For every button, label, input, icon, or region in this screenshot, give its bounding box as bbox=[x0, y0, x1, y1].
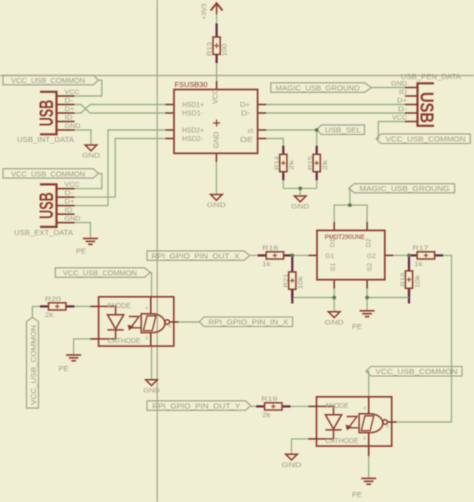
svg-text:USB_PEN_DATA: USB_PEN_DATA bbox=[401, 72, 461, 81]
svg-text:R17: R17 bbox=[413, 245, 429, 252]
svg-text:10k: 10k bbox=[298, 275, 305, 289]
svg-text:100: 100 bbox=[221, 43, 228, 56]
svg-text:D+: D+ bbox=[65, 199, 75, 206]
svg-text:VCC_USB_COMMON: VCC_USB_COMMON bbox=[11, 78, 85, 85]
svg-text:D+: D+ bbox=[65, 106, 75, 113]
svg-text:GND: GND bbox=[82, 153, 100, 160]
svg-text:2k: 2k bbox=[262, 412, 271, 419]
svg-text:GND: GND bbox=[391, 81, 407, 88]
svg-text:ID: ID bbox=[65, 207, 73, 214]
svg-text:MAGIC_USB_GROUND: MAGIC_USB_GROUND bbox=[276, 86, 360, 93]
svg-text:USB: USB bbox=[37, 100, 58, 127]
svg-text:VCC: VCC bbox=[65, 182, 80, 189]
svg-text:S1: S1 bbox=[330, 262, 337, 271]
svg-text:PE: PE bbox=[59, 366, 69, 373]
svg-text:3: 3 bbox=[363, 436, 366, 441]
svg-text:VCC: VCC bbox=[65, 89, 80, 96]
svg-text:2k: 2k bbox=[45, 312, 54, 319]
svg-text:R16: R16 bbox=[262, 245, 278, 252]
svg-text:S2: S2 bbox=[367, 262, 374, 271]
svg-text:VCC_USB_COMMON: VCC_USB_COMMON bbox=[63, 271, 137, 278]
svg-text:GND: GND bbox=[325, 319, 344, 326]
svg-text:USB: USB bbox=[37, 192, 58, 219]
svg-text:USB_EXT_DATA: USB_EXT_DATA bbox=[14, 228, 73, 237]
svg-text:HSD1-: HSD1- bbox=[182, 111, 204, 118]
svg-text:GND: GND bbox=[65, 123, 81, 130]
svg-text:PE: PE bbox=[352, 324, 362, 331]
svg-text:1k: 1k bbox=[262, 261, 271, 268]
svg-text:G1: G1 bbox=[325, 253, 334, 260]
svg-text:GND: GND bbox=[65, 216, 81, 223]
svg-text:D1: D1 bbox=[330, 238, 337, 247]
svg-text:OE: OE bbox=[240, 137, 253, 144]
svg-text:RPI_GPIO_PIN_IN_X: RPI_GPIO_PIN_IN_X bbox=[208, 320, 288, 327]
svg-text:MAGIC_USB_GROUNG: MAGIC_USB_GROUNG bbox=[359, 186, 449, 193]
svg-text:ID: ID bbox=[65, 115, 73, 122]
svg-text:R20: R20 bbox=[45, 296, 61, 303]
svg-text:2k: 2k bbox=[322, 159, 329, 170]
svg-text:2k: 2k bbox=[289, 159, 296, 170]
svg-text:G2: G2 bbox=[367, 253, 376, 260]
svg-text:10k: 10k bbox=[414, 274, 421, 288]
svg-text:PE: PE bbox=[76, 249, 86, 256]
svg-text:D-: D- bbox=[241, 111, 251, 118]
svg-text:D+: D+ bbox=[397, 98, 407, 105]
svg-text:GND: GND bbox=[214, 132, 221, 149]
svg-text:3: 3 bbox=[145, 336, 148, 341]
svg-text:USB: USB bbox=[417, 92, 438, 123]
svg-text:USB_SEL: USB_SEL bbox=[325, 128, 361, 135]
svg-text:FSUSB30: FSUSB30 bbox=[175, 80, 208, 89]
svg-text:GND: GND bbox=[291, 204, 309, 211]
svg-text:VCC_USB_COMMON: VCC_USB_COMMON bbox=[11, 171, 85, 178]
svg-text:ID: ID bbox=[399, 89, 407, 96]
svg-text:ANODE: ANODE bbox=[107, 303, 131, 310]
svg-text:R19: R19 bbox=[261, 396, 277, 403]
svg-text:VCC_USB_COMMON: VCC_USB_COMMON bbox=[386, 137, 466, 144]
svg-text:HSD1+: HSD1+ bbox=[182, 102, 204, 109]
svg-text:ANODE: ANODE bbox=[325, 403, 349, 410]
svg-text:4: 4 bbox=[363, 405, 366, 410]
svg-text:VCC: VCC bbox=[392, 115, 407, 122]
svg-text:RPI_GPIO_PIN_OUT_X: RPI_GPIO_PIN_OUT_X bbox=[152, 254, 240, 261]
svg-text:VCC_USB_COMMON: VCC_USB_COMMON bbox=[376, 369, 458, 376]
svg-text:GND: GND bbox=[207, 202, 226, 209]
svg-text:+3V3: +3V3 bbox=[201, 3, 208, 19]
svg-text:HSD2-: HSD2- bbox=[182, 136, 204, 143]
svg-text:PE: PE bbox=[352, 492, 362, 499]
svg-text:USB_INT_DATA: USB_INT_DATA bbox=[17, 135, 74, 144]
svg-text:4: 4 bbox=[145, 305, 148, 310]
svg-text:R14: R14 bbox=[274, 156, 281, 170]
svg-text:D+: D+ bbox=[240, 102, 250, 109]
svg-text:HSD2+: HSD2+ bbox=[182, 128, 204, 135]
svg-text:RPI_GPIO_PIN_OUT_Y: RPI_GPIO_PIN_OUT_Y bbox=[152, 404, 240, 411]
svg-text:D-: D- bbox=[65, 190, 74, 197]
svg-text:R21: R21 bbox=[283, 273, 290, 287]
svg-text:GND: GND bbox=[282, 462, 302, 469]
svg-text:D-: D- bbox=[65, 98, 74, 105]
svg-text:VCC: VCC bbox=[213, 89, 220, 104]
svg-text:1k: 1k bbox=[414, 261, 423, 268]
svg-text:D2: D2 bbox=[366, 238, 373, 247]
svg-text:GND: GND bbox=[143, 387, 160, 394]
svg-text:S: S bbox=[248, 128, 255, 133]
svg-text:D-: D- bbox=[398, 106, 407, 113]
svg-text:5: 5 bbox=[169, 323, 172, 328]
svg-text:R18: R18 bbox=[400, 272, 407, 286]
svg-text:CATHODE: CATHODE bbox=[108, 338, 141, 345]
svg-text:VCC_USB_COMMON: VCC_USB_COMMON bbox=[31, 325, 38, 405]
svg-text:5: 5 bbox=[386, 423, 389, 428]
svg-text:R15: R15 bbox=[308, 156, 315, 170]
svg-text:R13: R13 bbox=[207, 42, 214, 56]
svg-text:CATHODE: CATHODE bbox=[325, 438, 358, 445]
